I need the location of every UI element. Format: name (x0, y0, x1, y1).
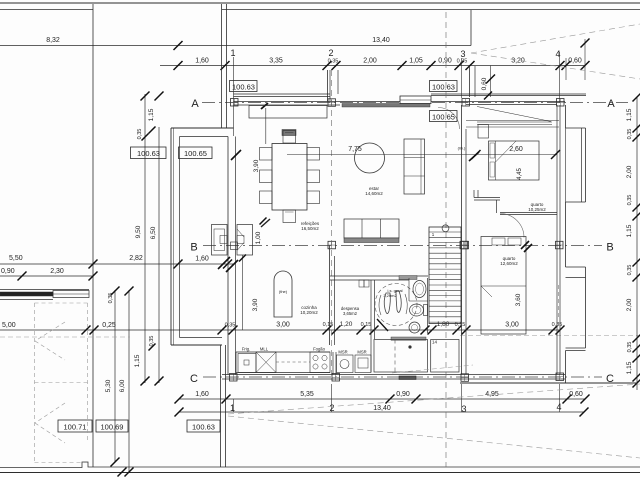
termo cylinder (274, 271, 292, 317)
svg-text:3,00: 3,00 (276, 322, 290, 329)
svg-text:0,35: 0,35 (627, 265, 633, 276)
north wall filled band (342, 104, 430, 108)
svg-text:1,60: 1,60 (195, 58, 209, 65)
svg-text:0,35: 0,35 (627, 195, 633, 206)
dim line y=65.5 (160, 65, 585, 67)
svg-text:3,90: 3,90 (253, 159, 260, 172)
notch bedroom2 (566, 266, 586, 268)
dining chairs (283, 131, 296, 144)
column square A grid1 (231, 99, 239, 107)
laundry machine box (355, 355, 371, 373)
column square A grid3 (462, 99, 470, 107)
svg-text:0,90: 0,90 (438, 58, 452, 65)
svg-text:100.63: 100.63 (192, 423, 215, 432)
svg-text:100.71: 100.71 (64, 423, 87, 432)
porch slab (249, 106, 327, 119)
column square B grid2 (328, 241, 336, 249)
dimension line x=159 (6,50) (158, 127, 160, 383)
column square B grid3 (460, 241, 468, 249)
level box 100.65 left (179, 147, 213, 159)
west outer wall (170, 128, 172, 345)
svg-text:12,60m2: 12,60m2 (500, 261, 518, 266)
svg-text:4: 4 (556, 402, 561, 412)
ticks y=399 (175, 395, 184, 404)
stair newel circle (442, 225, 449, 232)
wardrobe notch bedroom1 (566, 127, 586, 129)
section line C (203, 376, 602, 378)
level box 100.63 bottom (187, 420, 220, 432)
garage door box (53, 291, 89, 298)
svg-text:5,50: 5,50 (9, 255, 23, 262)
pantry-bath divider wall (370, 280, 372, 372)
north wall east outer face (431, 93, 586, 95)
svg-text:14,60m2: 14,60m2 (365, 191, 383, 196)
svg-text:0,35: 0,35 (108, 293, 114, 304)
stair landing column (461, 241, 469, 249)
entry door sill south (399, 376, 416, 380)
svg-text:1,15: 1,15 (626, 108, 633, 121)
column square C grid1 (230, 374, 238, 382)
svg-text:10,25m2: 10,25m2 (528, 207, 546, 212)
wash basin (413, 281, 426, 298)
svg-text:8,32: 8,32 (46, 37, 60, 44)
grid 4 stub line (559, 52, 561, 103)
stair bottom box (431, 340, 459, 373)
entry threshold hatch (282, 130, 296, 136)
top boundary jog at x=471 (470, 10, 472, 46)
svg-text:13,40: 13,40 (372, 37, 390, 44)
svg-text:100.65: 100.65 (432, 113, 455, 122)
svg-text:2,82: 2,82 (129, 255, 143, 262)
svg-text:3,65m2: 3,65m2 (343, 311, 358, 316)
shelf unit (404, 139, 425, 194)
svg-text:10,20m2: 10,20m2 (300, 310, 318, 315)
laundry sink box (337, 355, 354, 373)
svg-text:2,60: 2,60 (509, 146, 523, 153)
svg-text:0,35: 0,35 (627, 129, 633, 140)
svg-text:2: 2 (328, 48, 333, 58)
svg-text:100.69: 100.69 (101, 423, 124, 432)
svg-text:6,50: 6,50 (150, 226, 157, 239)
svg-text:0,35: 0,35 (149, 336, 155, 347)
north wall porch outer face (234, 93, 331, 95)
svg-text:B: B (606, 242, 613, 254)
garage door dark band (0, 292, 53, 296)
interior wall living-bedrooms (461, 105, 463, 375)
door tick hall wall (469, 152, 479, 161)
porch door tick (261, 103, 268, 109)
tick 8,32/13,40 (174, 41, 183, 50)
svg-text:MLL: MLL (260, 347, 269, 352)
east wall outer upper (565, 105, 567, 128)
SW corner wall band (171, 344, 222, 346)
site line x=93 (92, 4, 94, 467)
svg-text:2,30: 2,30 (50, 268, 64, 275)
sight line bottom lower (228, 416, 640, 458)
bedroom divider jog (496, 200, 498, 213)
site boundary top line 1 (0, 2, 640, 4)
svg-text:A: A (191, 98, 199, 110)
bath door leaf (377, 319, 388, 331)
tick x=585 top (581, 39, 590, 48)
pantry west wall (329, 246, 331, 346)
svg-text:2,00: 2,00 (363, 58, 377, 65)
sight line fan lower (471, 53, 640, 79)
dim stub x=585 (584, 39, 586, 80)
column square C grid2 (332, 374, 340, 382)
svg-text:3: 3 (460, 49, 465, 59)
svg-text:0,35: 0,35 (328, 59, 339, 65)
svg-text:9,50: 9,50 (135, 225, 142, 238)
svg-text:1,15: 1,15 (148, 108, 155, 121)
bed 2 pillows (492, 238, 505, 245)
svg-text:4,45: 4,45 (517, 168, 523, 180)
bed 2 (481, 237, 526, 335)
staircase body (429, 227, 461, 324)
svg-text:2,00: 2,00 (626, 298, 633, 311)
svg-text:3,90: 3,90 (252, 298, 259, 311)
svg-text:0,90: 0,90 (1, 268, 15, 275)
living west wall (227, 137, 229, 375)
svg-text:1,60: 1,60 (195, 391, 209, 398)
dimension line x=145 (9,50) (144, 94, 146, 383)
svg-text:16,50m2: 16,50m2 (301, 226, 319, 231)
svg-text:100.63: 100.63 (232, 83, 255, 92)
bath south hatch (391, 337, 426, 340)
round table estar (355, 143, 385, 173)
porch wall stub grid2 (327, 70, 329, 102)
svg-text:A: A (607, 98, 615, 110)
south wall second line (222, 378, 565, 380)
svg-text:6,00: 6,00 (119, 379, 126, 392)
south wall outer east segment (460, 382, 637, 384)
east wall outer lower (565, 351, 567, 384)
column square A grid4 (557, 99, 565, 107)
fireplace center box (231, 242, 238, 250)
south wall inner face (222, 374, 565, 376)
svg-text:3,60: 3,60 (515, 293, 522, 306)
bath figure (384, 293, 390, 314)
svg-text:2,00: 2,00 (626, 165, 633, 178)
basin nook (408, 278, 410, 301)
svg-text:0,60: 0,60 (569, 391, 583, 398)
svg-text:0,60: 0,60 (568, 58, 582, 65)
svg-text:1: 1 (230, 48, 235, 58)
svg-text:0,35: 0,35 (137, 129, 143, 140)
svg-text:1: 1 (230, 403, 235, 413)
north wall inner face (234, 101, 566, 103)
svg-text:0,35: 0,35 (225, 323, 236, 329)
svg-text:0,15: 0,15 (361, 322, 372, 328)
beam lines bedroom1 (466, 120, 559, 122)
street edge upper-left segment (0, 462, 640, 468)
ticks left dim lines (141, 92, 150, 101)
svg-text:14: 14 (432, 340, 438, 345)
grid dashed line x=446 (445, 12, 447, 467)
west yard wall to street (220, 345, 222, 467)
svg-text:0,25: 0,25 (102, 322, 116, 329)
shower drain (409, 322, 420, 333)
svg-text:1,00: 1,00 (255, 231, 262, 244)
svg-text:2: 2 (329, 403, 334, 413)
svg-text:C: C (190, 373, 198, 385)
grey dash line y=335.5 right (460, 335, 640, 337)
level box 100.63 top right (430, 81, 458, 92)
dishwasher MLL box (256, 352, 276, 373)
bath-stairs wall (427, 278, 429, 333)
svg-text:3,00: 3,00 (505, 322, 519, 329)
counter dashed line (276, 361, 310, 363)
stove box (310, 352, 330, 373)
svg-text:MSR: MSR (357, 350, 366, 355)
sofa back hatched band (344, 238, 399, 243)
bedroom2 door arc (500, 214, 524, 238)
column square A grid2 (328, 99, 336, 107)
fireplace tick (260, 218, 267, 225)
east wall outer mid (565, 202, 567, 267)
driveway dashed rect (34, 303, 36, 463)
dim line y=330 full chain (0, 329, 560, 331)
level box 100.63 left (131, 147, 167, 159)
ticks y=412 (175, 408, 184, 417)
dim line y=276 (0, 275, 93, 277)
sight line fan upper (471, 24, 640, 53)
dim line y=399 (179, 398, 585, 400)
bedroom divider wall upper (474, 197, 500, 199)
refeicoes tick (261, 219, 270, 227)
sight line bottom upper (228, 384, 640, 414)
svg-text:1,15: 1,15 (626, 224, 633, 237)
NW corner wall band (171, 127, 234, 129)
svg-text:7,75: 7,75 (348, 146, 362, 153)
kitchen hall divider wall (332, 352, 334, 375)
svg-text:0,35: 0,35 (627, 342, 633, 353)
living entry tick (231, 150, 241, 160)
section line A (202, 102, 628, 104)
svg-text:1,15: 1,15 (134, 354, 141, 367)
level box 100.65 right (430, 111, 458, 122)
grid 2 dashed line (331, 70, 333, 374)
bedroom divider wall lower (500, 212, 557, 214)
garage wall line (0, 289, 89, 291)
level box 100.63 courtyard (230, 81, 258, 92)
stair lower flight hall box (374, 340, 428, 373)
svg-text:Fogão: Fogão (313, 347, 326, 352)
wall stub grid3 (469, 66, 471, 97)
driveway chevron 1 (35, 322, 65, 341)
bath turning circle (375, 284, 417, 326)
dim stub x=566 (565, 58, 567, 80)
svg-text:Frig.: Frig. (242, 347, 250, 352)
grid stubs bottom (233, 399, 235, 412)
pantry-bath north wall (330, 275, 428, 277)
level box 100.71 (58, 420, 92, 432)
dimension line x=129 (6,00) (128, 290, 130, 472)
dim line x=637 (636, 97, 638, 390)
site boundary top line 2 (0, 9, 93, 11)
dining table (272, 144, 307, 211)
svg-text:100.63: 100.63 (137, 149, 160, 158)
north wall window tick (484, 92, 492, 100)
wc toilet (410, 304, 424, 316)
svg-text:100.63: 100.63 (432, 83, 455, 92)
grid 3 stub line (461, 58, 463, 98)
svg-text:0,60: 0,60 (481, 77, 488, 90)
column square B grid4 (556, 241, 564, 249)
driveway chevron 2 (35, 403, 65, 423)
garage lower line (0, 299, 53, 301)
ticks y=330 (82, 326, 91, 335)
level box 100.69 (96, 420, 128, 432)
bath shelf grey band (399, 276, 417, 280)
pantry door squares (359, 280, 364, 287)
interior dim line 7,75/2,60 (287, 154, 557, 156)
kitchen counter outline (236, 351, 330, 353)
svg-text:B: B (190, 242, 197, 254)
dim line y=264 (0, 263, 233, 265)
closet bedroom1 (477, 121, 552, 123)
vert line x=242.5 kitchen (242, 255, 244, 330)
fridge box (238, 354, 256, 373)
column square C grid4 (556, 373, 564, 381)
window ticks bedroom2 (521, 241, 529, 249)
north window living room (400, 96, 431, 104)
street edge lower line (0, 472, 640, 474)
svg-text:1,60: 1,60 (195, 256, 209, 263)
dim line y=45.5 (0, 45, 471, 47)
sofa (344, 219, 399, 238)
svg-text:0,35: 0,35 (457, 59, 468, 65)
svg-text:5,00: 5,00 (2, 322, 16, 329)
dimension line x=115 (5,30) (114, 290, 116, 462)
grey dash line y=337 left (0, 336, 130, 338)
bed 1 (489, 141, 540, 180)
east wall inner faces (556, 105, 558, 375)
svg-text:0,15: 0,15 (455, 322, 466, 328)
svg-text:3,35: 3,35 (269, 58, 283, 65)
svg-text:3,20m2: 3,20m2 (383, 293, 397, 298)
entry courtyard west wall (221, 4, 223, 128)
grid 1 stub line (233, 57, 235, 136)
svg-text:5,35: 5,35 (300, 391, 314, 398)
dim line y=412 (179, 411, 584, 413)
svg-text:13,40: 13,40 (373, 405, 391, 412)
svg-text:5,30: 5,30 (105, 379, 112, 392)
column square C grid3 (461, 374, 469, 382)
bedroom1 door arc (438, 108, 460, 130)
svg-text:(lib.): (lib.) (458, 146, 466, 151)
fireplace right box (237, 225, 253, 256)
svg-text:1,15: 1,15 (626, 361, 633, 374)
east wall window dashes (558, 285, 560, 320)
svg-text:0,90: 0,90 (396, 391, 410, 398)
svg-text:(the): (the) (279, 289, 288, 294)
ticks x=637 (633, 93, 640, 102)
sight line short (392, 365, 473, 373)
fireplace left box (212, 225, 228, 256)
svg-text:MSR: MSR (338, 350, 347, 355)
section line B (203, 245, 602, 247)
kitchen door ticks (218, 257, 230, 269)
svg-text:1,20: 1,20 (340, 321, 353, 328)
ticks on y=65.5 (174, 61, 183, 70)
svg-text:1,05: 1,05 (409, 58, 423, 65)
vert dim 0,60 at grid3 (490, 66, 492, 98)
svg-text:3: 3 (461, 404, 466, 414)
svg-text:100.65: 100.65 (184, 149, 207, 158)
porch edge line (265, 108, 267, 144)
